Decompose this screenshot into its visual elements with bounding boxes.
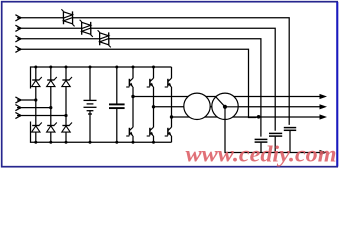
svg-text:www.cediy.com: www.cediy.com bbox=[186, 142, 337, 167]
